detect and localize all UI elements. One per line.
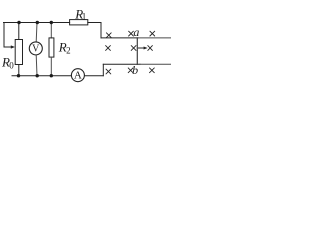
wiper arrowhead — [11, 45, 15, 48]
x mark row3 c1 — [106, 69, 111, 74]
svg-text:2: 2 — [66, 46, 71, 56]
x mark row1 c1 — [106, 33, 111, 38]
ammeter U-A (circle) — [71, 69, 84, 82]
svg-text:A: A — [74, 70, 82, 82]
x mark row2 c2 — [131, 46, 136, 51]
x mark row2 c3 — [148, 46, 153, 51]
wire: rail b left drop — [102, 64, 104, 75]
wire: bottom rail left segment — [12, 75, 71, 77]
svg-text:1: 1 — [82, 12, 87, 22]
wire: rail b faded right part — [140, 63, 171, 65]
wire: top rail right of R1 — [88, 22, 101, 24]
x mark row1 c2 — [129, 31, 134, 36]
wire: R2 top lead — [50, 23, 52, 38]
wire: R0 bottom lead — [18, 65, 20, 76]
wire: left vertical (wiper lead) — [3, 23, 5, 48]
field cross marks — [106, 31, 155, 74]
svg-text:b: b — [132, 63, 138, 77]
wire: rail a — [101, 37, 138, 39]
background — [0, 0, 171, 100]
wire: R0 top lead — [18, 23, 20, 40]
x mark row2 c1 — [106, 46, 111, 51]
wire: voltmeter bottom lead — [35, 55, 38, 76]
resistor R2 (box) — [49, 38, 54, 57]
wire: voltmeter top lead — [35, 23, 38, 42]
junction node top-left (R0) — [17, 21, 20, 24]
resistor R0 (box) — [15, 40, 22, 65]
svg-text:V: V — [32, 43, 40, 54]
wire: R2 bottom lead — [50, 57, 52, 76]
junction node bottom (voltmeter) — [36, 74, 39, 77]
velocity arrowhead — [144, 47, 148, 50]
resistor R1 (box) — [70, 20, 88, 25]
junction node top (R2) — [50, 21, 53, 24]
svg-text:a: a — [133, 25, 139, 39]
junction node bottom (R0) — [17, 74, 20, 77]
svg-text:0: 0 — [9, 61, 14, 71]
wire: bottom rail right of ammeter — [85, 75, 104, 77]
velocity arrow shaft — [138, 47, 145, 49]
voltmeter U-V (circle) — [29, 42, 42, 55]
conductor rod on rails — [136, 38, 138, 65]
junction node bottom (R2) — [50, 74, 53, 77]
wire: wiper horizontal — [4, 46, 12, 48]
x mark row1 c3 — [150, 31, 155, 36]
wire: top rail left segment — [4, 22, 70, 24]
x mark row3 c3 — [150, 68, 155, 73]
wire: right step-down to rail a — [100, 23, 102, 38]
wire: rail a faded right part — [138, 37, 171, 39]
x mark row3 c2 — [128, 68, 133, 73]
junction node top (voltmeter) — [36, 21, 39, 24]
wire: rail b — [103, 63, 140, 65]
